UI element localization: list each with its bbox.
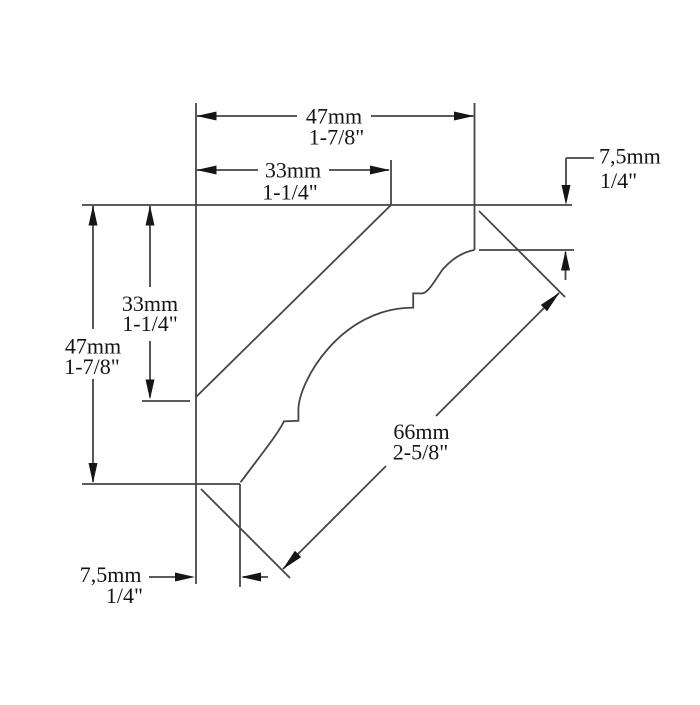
- dim line 66mm upper segment: [436, 293, 559, 416]
- arrowhead 33mm top right: [370, 166, 390, 175]
- arrowhead 7.5mm top down: [562, 185, 571, 205]
- 66mm extension line bottom: [201, 489, 290, 578]
- arrowhead 7.5mm bottom left-pointing: [241, 573, 261, 582]
- arrowhead 47mm left up: [89, 206, 98, 226]
- arrowhead 47mm left down: [89, 463, 98, 483]
- arrowhead 7.5mm bottom right-pointing: [175, 573, 195, 582]
- 66mm extension line top: [479, 211, 565, 297]
- arrowhead 66mm lower: [283, 551, 302, 570]
- molding bottom line / 47mm extension: [82, 483, 240, 485]
- leader 7.5mm bottom horizontal: [149, 576, 178, 578]
- bottom 7.5mm extension line: [239, 484, 241, 587]
- arrowhead 47mm top right: [454, 112, 474, 121]
- svg-text:1-7/8": 1-7/8": [64, 354, 119, 379]
- svg-text:1/4": 1/4": [106, 583, 143, 608]
- arrowhead 66mm upper: [541, 293, 560, 312]
- svg-text:1/4": 1/4": [600, 168, 637, 193]
- svg-text:7,5mm: 7,5mm: [599, 144, 661, 169]
- arrowhead 33mm top left: [197, 166, 217, 175]
- dim line 47mm left lower segment: [92, 379, 94, 482]
- dim line 33mm left upper segment: [149, 206, 151, 287]
- svg-text:1-7/8": 1-7/8": [309, 125, 364, 150]
- dim line 33mm left lower segment: [149, 341, 151, 397]
- dim line 33mm top right segment: [329, 169, 389, 171]
- 7.5mm bottom right arrow tail: [243, 576, 268, 578]
- 33mm top extension line: [390, 160, 392, 205]
- dim line 66mm lower segment: [283, 466, 386, 569]
- top 7.5mm extension line: [479, 249, 574, 251]
- leader 7.5mm top vertical: [565, 158, 567, 188]
- 33mm left tick extension: [142, 400, 190, 402]
- arrowhead 33mm left up: [146, 206, 155, 226]
- dim line 47mm top right segment: [371, 115, 474, 117]
- molding back diagonal: [196, 205, 391, 397]
- dim line 33mm top left segment: [197, 169, 258, 171]
- wall line: [195, 103, 197, 584]
- molding right edge: [474, 103, 476, 250]
- svg-text:1-1/4": 1-1/4": [262, 180, 317, 205]
- leader 7.5mm top horizontal: [566, 157, 594, 159]
- molding profile curve: [241, 250, 475, 482]
- dim line 47mm left upper segment: [92, 206, 94, 329]
- svg-text:2-5/8": 2-5/8": [393, 440, 448, 465]
- arrowhead 33mm left down: [146, 380, 155, 400]
- svg-text:1-1/4": 1-1/4": [122, 311, 177, 336]
- 7.5mm top lower arrow tail: [565, 252, 567, 280]
- ceiling line: [82, 204, 572, 206]
- arrowhead 47mm top left: [197, 112, 217, 121]
- arrowhead 7.5mm top up: [561, 251, 570, 271]
- dim line 47mm top left segment: [197, 115, 297, 117]
